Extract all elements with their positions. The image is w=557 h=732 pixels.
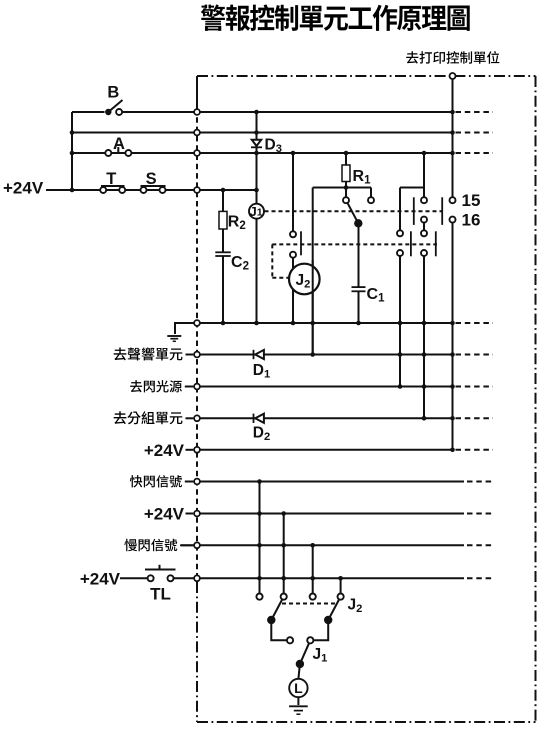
- svg-text:L: L: [294, 680, 303, 696]
- svg-text:16: 16: [462, 211, 481, 230]
- svg-text:+24V: +24V: [3, 179, 44, 198]
- svg-text:15: 15: [462, 191, 481, 210]
- svg-text:B: B: [107, 84, 119, 102]
- svg-text:A: A: [113, 135, 125, 153]
- svg-text:T: T: [106, 170, 116, 188]
- svg-text:+24V: +24V: [80, 569, 121, 588]
- svg-text:+24V: +24V: [144, 441, 185, 460]
- svg-text:+24V: +24V: [144, 505, 185, 524]
- svg-text:J1: J1: [250, 204, 263, 219]
- svg-text:S: S: [146, 170, 157, 188]
- svg-text:TL: TL: [150, 585, 171, 604]
